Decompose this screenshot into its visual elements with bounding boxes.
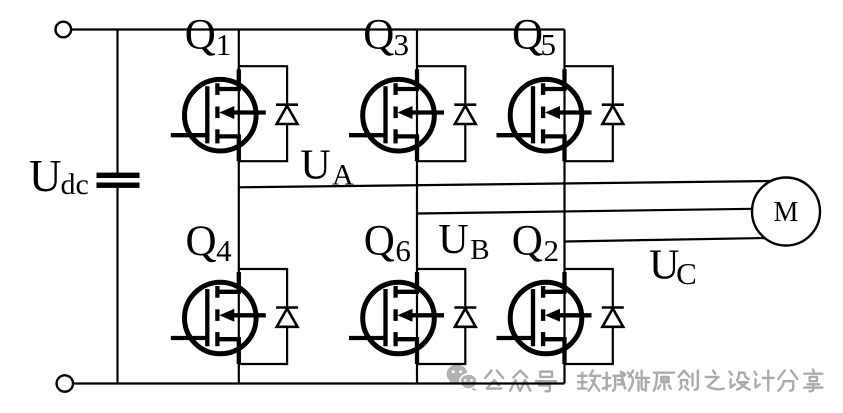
svg-text:Q: Q (512, 218, 543, 265)
svg-text:M: M (774, 197, 799, 228)
svg-text:U: U (649, 243, 679, 289)
svg-text:A: A (332, 158, 354, 191)
svg-text:Q: Q (363, 12, 394, 59)
svg-text:2: 2 (544, 233, 560, 268)
svg-text:6: 6 (395, 233, 411, 268)
svg-text:3: 3 (394, 27, 410, 62)
svg-text:B: B (470, 234, 489, 266)
svg-text:4: 4 (216, 233, 232, 268)
svg-text:C: C (676, 256, 697, 291)
svg-text:Q: Q (186, 218, 217, 265)
svg-text:1: 1 (216, 27, 232, 62)
svg-text:U: U (300, 142, 330, 188)
svg-text:Q: Q (185, 12, 216, 59)
svg-text:U: U (29, 151, 62, 201)
svg-text:Q: Q (364, 218, 395, 265)
svg-text:U: U (438, 217, 468, 263)
svg-text:5: 5 (541, 27, 557, 62)
svg-text:Q: Q (512, 12, 543, 59)
svg-text:dc: dc (61, 168, 89, 201)
